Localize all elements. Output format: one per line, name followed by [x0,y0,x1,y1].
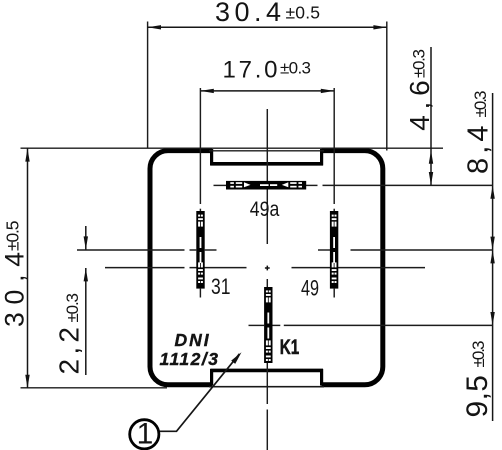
svg-text:31: 31 [211,274,231,299]
top notch recessed edge [210,149,323,165]
dimension 30.4 left: dimension line with arrows [25,148,29,389]
svg-text:8,4: 8,4 [463,126,495,175]
svg-text:±0.3: ±0.3 [469,341,488,368]
svg-text:±0.3: ±0.3 [280,59,311,78]
horizontal centerline of pin K1 [249,324,493,326]
vertical centerline of pin 49 / extension for 17.0 [333,88,335,298]
svg-text:±0.3: ±0.3 [410,49,429,78]
center cross mark [265,266,270,271]
svg-text:±0.5: ±0.5 [2,221,22,252]
pin 49a blade [226,181,306,190]
balloon callout 1 circle [130,418,159,450]
horizontal centerline of pin 49a [214,184,493,186]
pin 31 blade [196,211,204,289]
svg-text:17.0: 17.0 [223,57,278,84]
bottom notch whiteout [212,380,322,386]
svg-text:9,5: 9,5 [461,375,494,418]
bottom notch recessed edge [210,369,323,386]
svg-text:DNI: DNI [175,330,211,350]
pin K1 blade [264,287,272,363]
svg-text:±0.5: ±0.5 [286,3,321,23]
dimension 8.4 and 9.5 shared dimension line [490,93,494,421]
vertical centerline of pin 31 / extension for 17.0 [199,88,201,298]
svg-text:2,2: 2,2 [54,327,85,375]
svg-text:30.4: 30.4 [215,0,281,27]
dimension 30.4 top: extension lines [148,22,387,151]
svg-text:49a: 49a [250,198,280,221]
pin 49 blade [330,211,338,289]
main vertical centerline [266,109,268,450]
top notch whiteout [212,144,322,156]
balloon callout 1 leader [159,352,241,431]
svg-text:1: 1 [137,418,154,450]
bottom edge hidden line across notch [209,386,324,388]
svg-text:±0.3: ±0.3 [471,91,490,118]
svg-text:49: 49 [301,276,319,301]
dimension 30.4 left: extension lines [21,148,444,388]
dimension 30.4 top: dimension line with arrows [148,25,387,29]
dimension 17.0: dimension line with arrows [200,89,334,93]
svg-text:4,6: 4,6 [404,80,435,131]
horizontal centerline of pins 31 and 49 [77,249,493,251]
dimension 4.6: dimension line with arrows [429,47,433,185]
relay body outline [150,151,383,385]
horizontal centerline of body [105,267,425,269]
top edge hidden line across notch [209,150,324,152]
svg-text:±0.3: ±0.3 [63,293,82,323]
svg-text:K1: K1 [280,336,300,359]
dimension 2.2: dimension lines with arrows [84,226,88,375]
